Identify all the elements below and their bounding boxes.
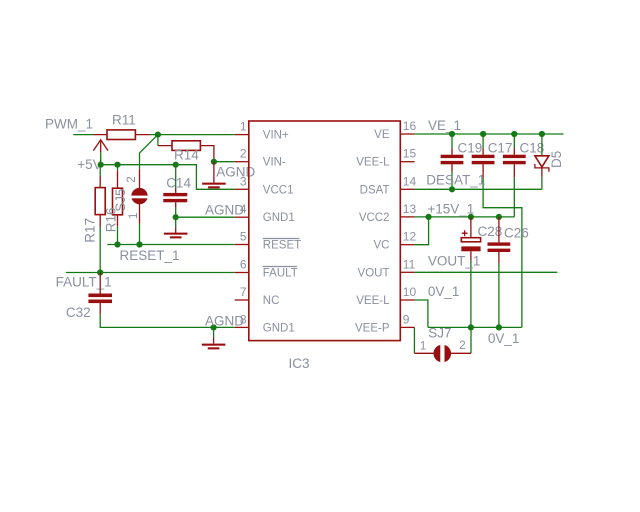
svg-text:VOUT: VOUT — [358, 267, 390, 279]
wire VOUT_1 net — [415, 271, 558, 273]
wire SJ5 to RESET_1 — [139, 224, 141, 245]
svg-text:RESET: RESET — [263, 240, 301, 252]
pin 11 VOUT — [358, 257, 416, 279]
svg-text:D5: D5 — [549, 151, 564, 168]
ground AGND at pin8 — [202, 313, 244, 349]
wire C19 to DESAT_1 — [451, 172, 453, 190]
svg-text:VEE-P: VEE-P — [355, 322, 390, 334]
pin 15 VEE-L — [356, 147, 416, 169]
svg-text:C18: C18 — [520, 140, 545, 155]
node junction VE at D5 — [539, 131, 545, 137]
svg-text:VIN+: VIN+ — [263, 130, 289, 142]
pin 3 VCC1 — [235, 174, 294, 196]
wire PWM_1 to R11 — [73, 134, 93, 136]
wire C17 to 0V_1 rail — [483, 178, 522, 328]
node junction VE at C17 — [480, 131, 486, 137]
wire 0V_1 rail — [428, 326, 522, 328]
pin 8 GND1 — [235, 312, 295, 334]
node junction pin1 net — [155, 132, 161, 138]
svg-text:AGND: AGND — [205, 203, 244, 218]
wire R17 to FAULT_1 — [99, 227, 101, 273]
resistor R16 — [103, 165, 122, 233]
svg-text:C19: C19 — [458, 140, 483, 155]
svg-text:0V_1: 0V_1 — [488, 331, 520, 346]
wire VE_1 net — [415, 133, 564, 135]
wire SJ7 to 0V_1 rail — [470, 327, 472, 353]
svg-text:C32: C32 — [66, 305, 91, 320]
ground AGND under C14 — [164, 228, 188, 239]
diode D5 — [535, 134, 564, 177]
node junction C14 AGND — [173, 214, 179, 220]
svg-text:FAULT_1: FAULT_1 — [56, 274, 112, 289]
node junction RESET_1 at R16 — [114, 241, 120, 247]
node junction +5V at arrow — [98, 162, 104, 168]
svg-text:11: 11 — [403, 257, 416, 271]
solder jumper SJ7 — [414, 326, 471, 364]
svg-text:DSAT: DSAT — [360, 184, 390, 196]
capacitor C19 — [441, 134, 483, 172]
svg-text:VCC1: VCC1 — [263, 184, 294, 196]
node junction VE at C18 — [511, 131, 517, 137]
svg-text:VOUT_1: VOUT_1 — [428, 253, 481, 268]
node junction +5V at C14 — [173, 162, 179, 168]
wire C14 to pin4 / AGND — [176, 208, 235, 228]
svg-text:C26: C26 — [504, 225, 529, 240]
pin 16 VE — [374, 119, 416, 141]
svg-text:6: 6 — [240, 258, 247, 272]
node junction +15V at VC — [426, 214, 432, 220]
capacitor C32 — [66, 273, 112, 321]
svg-text:1: 1 — [240, 120, 247, 134]
node junction DESAT at C19 — [449, 186, 455, 192]
svg-text:FAULT: FAULT — [263, 268, 298, 280]
wire diagonal pin1 net to SJ5 — [140, 135, 158, 170]
svg-text:12: 12 — [403, 230, 417, 244]
svg-text:5: 5 — [240, 230, 247, 244]
resistor R11 — [94, 113, 150, 140]
svg-text:DESAT_1: DESAT_1 — [426, 173, 485, 188]
svg-text:AGND: AGND — [205, 313, 244, 328]
wire VC pin12 to +15V — [415, 217, 429, 245]
node junction +5V at R16 — [114, 162, 120, 168]
wire 0V_1 pin10 jog — [415, 300, 428, 327]
svg-text:R14: R14 — [174, 148, 199, 163]
svg-text:2: 2 — [126, 176, 138, 182]
svg-text:9: 9 — [403, 312, 410, 326]
wire DESAT_1 net — [415, 188, 542, 190]
svg-text:PWM_1: PWM_1 — [45, 116, 93, 131]
svg-text:+15V_1: +15V_1 — [427, 202, 474, 217]
pin 2 VIN- — [235, 147, 286, 169]
wire +5V stem — [100, 152, 102, 164]
svg-text:VE_1: VE_1 — [428, 118, 461, 133]
wire RESET_1 rail — [107, 244, 234, 246]
supply +5V arrow — [77, 140, 108, 172]
svg-text:R17: R17 — [82, 218, 97, 243]
node junction +15V at C26 — [496, 214, 502, 220]
wire FAULT_1 rail — [66, 272, 235, 274]
svg-text:VEE-L: VEE-L — [356, 295, 390, 307]
wire R11 to pin1 — [150, 134, 235, 136]
node junction 0V at C26 — [496, 324, 502, 330]
svg-text:SJ7: SJ7 — [428, 326, 451, 341]
svg-text:15: 15 — [403, 147, 417, 161]
svg-text:0V_1: 0V_1 — [428, 284, 460, 299]
wire C18 to +15V_1 — [513, 178, 515, 217]
pin 1 VIN+ — [235, 120, 289, 142]
svg-text:4: 4 — [240, 202, 247, 216]
node junction pin2 net — [211, 159, 217, 165]
capacitor C18 — [503, 134, 544, 178]
node junction VE at C19 — [449, 131, 455, 137]
svg-text:7: 7 — [240, 285, 247, 299]
pin 6 FAULT — [235, 258, 298, 280]
svg-text:VC: VC — [374, 240, 390, 252]
svg-text:13: 13 — [403, 202, 417, 216]
resistor R17 — [82, 165, 105, 243]
wire +5V rail — [101, 165, 235, 190]
pin 10 VEE-L — [356, 285, 416, 307]
svg-text:R11: R11 — [112, 113, 136, 128]
pin 5 RESET — [235, 230, 301, 252]
svg-text:2: 2 — [459, 340, 465, 352]
pin 14 DSAT — [360, 174, 417, 196]
svg-text:IC3: IC3 — [289, 356, 310, 371]
capacitor C26 — [488, 217, 529, 263]
node junction RESET_1 at SJ5 — [136, 241, 142, 247]
svg-text:2: 2 — [240, 147, 247, 161]
wire pin2 net — [214, 161, 235, 163]
resistor R14 — [158, 135, 214, 163]
wire +15V_1 net — [415, 216, 515, 218]
svg-text:GND1: GND1 — [263, 212, 295, 224]
svg-text:1: 1 — [128, 213, 140, 219]
node junction pin8 AGND — [211, 324, 217, 330]
pin 9 VEE-P — [355, 312, 415, 334]
wire pin9 to SJ7 — [413, 327, 415, 353]
svg-text:14: 14 — [403, 174, 417, 188]
svg-text:16: 16 — [403, 119, 417, 133]
wire C28 to 0V_1 rail — [470, 261, 472, 328]
pin 12 VC — [374, 230, 417, 252]
svg-text:VE: VE — [374, 129, 390, 141]
svg-text:VEE-L: VEE-L — [356, 157, 390, 169]
node junction FAULT_1 at R17 — [97, 269, 103, 275]
svg-text:GND1: GND1 — [263, 322, 295, 334]
ground AGND at pin2 — [202, 162, 255, 189]
svg-text:C14: C14 — [166, 176, 191, 191]
svg-text:VIN-: VIN- — [263, 157, 286, 169]
pin 13 VCC2 — [359, 202, 417, 224]
solder jumper SJ5 — [113, 169, 149, 223]
node junction +15V at C28 — [468, 214, 474, 220]
svg-text:10: 10 — [403, 285, 417, 299]
svg-text:SJ5: SJ5 — [113, 189, 128, 212]
svg-text:NC: NC — [263, 295, 280, 307]
svg-text:3: 3 — [240, 174, 247, 188]
capacitor C17 — [472, 134, 513, 178]
wire R16 to RESET_1 — [117, 226, 119, 244]
op-amp IC3 body — [249, 121, 400, 371]
wire C32 to pin8 — [100, 314, 235, 328]
capacitor C28 polarized — [461, 217, 502, 261]
pin 7 NC — [235, 285, 280, 307]
capacitor C14 — [163, 165, 191, 208]
wire C26 to 0V_1 rail — [498, 263, 500, 327]
node junction 0V at C28/SJ7 — [468, 324, 474, 330]
svg-text:RESET_1: RESET_1 — [120, 248, 180, 263]
pin 4 GND1 — [235, 202, 295, 224]
svg-text:8: 8 — [240, 312, 247, 326]
wire D5 to DESAT_1 — [541, 177, 543, 190]
svg-text:VCC2: VCC2 — [359, 212, 390, 224]
svg-text:1: 1 — [420, 341, 426, 353]
svg-text:C17: C17 — [488, 140, 513, 155]
